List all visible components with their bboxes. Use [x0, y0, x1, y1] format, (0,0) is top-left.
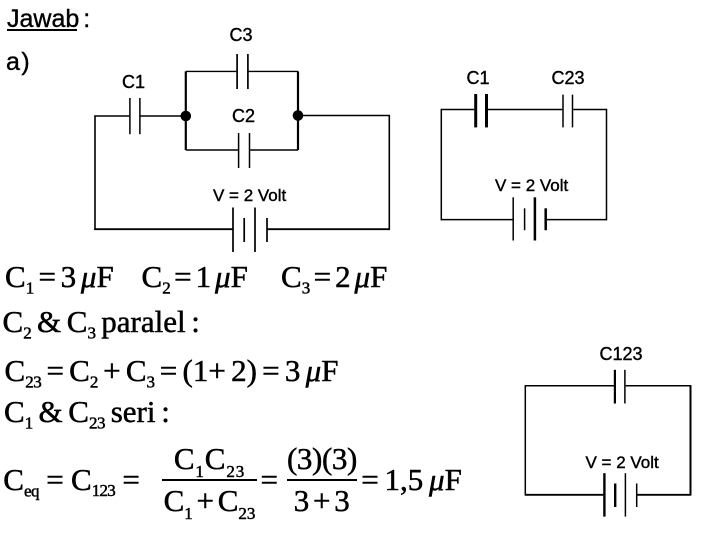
underline of Jawab — [7, 29, 77, 31]
label C2 (circuit 1) — [232, 107, 255, 125]
wire circuit3 bottom right segment — [637, 494, 691, 496]
wire circuit3 top left segment — [525, 385, 614, 387]
math line 3: C23 = C2 + C3 = (1+2) = 3 uF — [5, 355, 339, 386]
math line 5 fraction C1C23 / C1+C23 — [162, 443, 257, 517]
label C3 (circuit 1) — [230, 26, 253, 44]
math line 2: C2 & C3 paralel : — [3, 306, 200, 337]
wire circuit2 top right segment — [573, 109, 606, 111]
wire circuit2 top middle segment — [488, 109, 562, 111]
math line 5 tail: = 1,5 uF — [361, 464, 462, 495]
value label V = 2 Volt (circuit 3) — [586, 454, 659, 471]
value label V = 2 Volt (circuit 2) — [495, 177, 568, 194]
wire circuit3 top right segment — [626, 385, 691, 387]
wire parallel-rect left vertical — [185, 71, 187, 150]
junction node A (left dot) — [181, 111, 192, 122]
math line 5 head: Ceq = C123 = — [3, 464, 140, 495]
wire circuit1 right vertical — [388, 116, 390, 230]
capacitor C23 (circuit 2) — [563, 95, 573, 128]
wire rect bottom right segment — [250, 149, 298, 151]
label C1 (circuit 1) — [122, 73, 145, 91]
capacitor C1 (circuit 2) — [476, 94, 487, 127]
battery V3 (V = 2 Volt, circuit 3) — [604, 473, 636, 516]
wire C1 to node A — [141, 115, 187, 117]
capacitor C3 (circuit 1) — [237, 54, 248, 89]
capacitor C2 (circuit 1) — [239, 133, 250, 168]
math line 5 equals — [261, 464, 278, 495]
wire circuit3 left vertical — [524, 385, 526, 496]
label C123 (circuit 3) — [600, 345, 643, 363]
math line 1a: C1 = 3 uF — [5, 261, 114, 292]
title Jawab : — [7, 7, 90, 32]
value label V = 2 Volt (circuit 1) — [213, 187, 286, 204]
math line 5 fraction (3)(3) / 3+3 — [287, 443, 357, 517]
math line 4: C1 & C23 seri : — [4, 396, 170, 427]
label C23 (circuit 2) — [552, 69, 585, 87]
wire rect top right segment — [249, 70, 298, 72]
wire circuit1 bottom right segment — [267, 228, 390, 230]
math line 1c: C3 = 2 uF — [281, 261, 387, 292]
wire circuit3 bottom left segment — [525, 494, 603, 496]
wire circuit2 right vertical — [606, 109, 608, 221]
battery V2 (V = 2 Volt, circuit 2) — [513, 197, 546, 240]
wire circuit2 bottom left segment — [441, 219, 513, 221]
wire circuit1 left to C1 — [94, 115, 129, 117]
wire circuit2 bottom right segment — [547, 219, 607, 221]
wire parallel-rect right vertical — [297, 71, 299, 150]
wire circuit2 left vertical — [440, 109, 442, 221]
wire circuit3 right vertical — [690, 385, 692, 496]
wire circuit1 top right (node B to right side) — [298, 115, 390, 117]
battery V1 (V = 2 Volt, circuit 1) — [233, 208, 267, 253]
wire circuit1 bottom left segment — [94, 228, 232, 230]
capacitor C123 (circuit 3) — [615, 370, 625, 404]
label C1 (circuit 2) — [467, 69, 490, 87]
junction node B (right dot) — [293, 110, 304, 121]
wire rect bottom left segment — [186, 149, 238, 151]
wire circuit1 left vertical — [94, 116, 96, 230]
item marker a) — [6, 50, 31, 75]
capacitor C1 (circuit 1) — [130, 98, 140, 134]
wire circuit2 top left segment — [441, 109, 474, 111]
wire rect top left segment — [186, 70, 237, 72]
math line 1b: C2 = 1 uF — [142, 261, 248, 292]
